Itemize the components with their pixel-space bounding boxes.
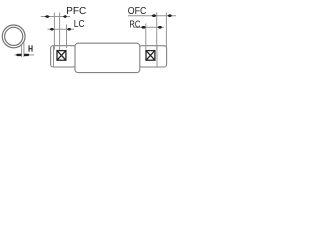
H dimension line left xyxy=(14,54,21,56)
RC dimension line xyxy=(134,26,164,28)
svg-text:LC: LC xyxy=(74,18,85,30)
left cap groove line xyxy=(53,46,55,67)
PFC dimension line xyxy=(41,16,70,18)
right bearing box xyxy=(146,51,155,61)
H arrow right xyxy=(24,54,30,56)
ring outer circle xyxy=(2,25,25,48)
svg-text:PFC: PFC xyxy=(66,5,87,17)
extension line V5 xyxy=(156,13,158,50)
svg-text:RC: RC xyxy=(129,19,140,31)
extension line V6 xyxy=(165,13,167,48)
extension line V2 xyxy=(59,13,61,50)
OFC arrow left xyxy=(152,14,157,17)
H label xyxy=(29,45,33,51)
LC arrow left xyxy=(50,28,54,31)
extension line V1 xyxy=(53,13,55,50)
H extension line outer xyxy=(23,43,25,57)
right cap groove line xyxy=(156,46,158,67)
H dimension line right xyxy=(24,54,34,56)
roller body xyxy=(75,43,140,72)
RC arrow left xyxy=(141,26,146,29)
left bearing box xyxy=(57,51,66,61)
PFC arrow left xyxy=(45,15,50,18)
H extension line inner xyxy=(21,45,23,57)
ring inner circle xyxy=(5,27,23,45)
RC arrow right xyxy=(158,26,163,29)
PFC arrow right xyxy=(63,15,67,18)
OFC arrow right xyxy=(167,14,172,17)
right cap (bearing housing) xyxy=(139,46,167,67)
extension line V3 xyxy=(66,25,68,49)
OFC dimension line xyxy=(128,15,176,17)
LC arrow right xyxy=(67,28,71,31)
svg-text:OFC: OFC xyxy=(128,5,147,17)
left cap (bearing housing) xyxy=(51,46,77,67)
extension line V4 xyxy=(145,24,147,50)
LC dimension line xyxy=(48,28,75,30)
H arrow left xyxy=(16,54,22,56)
